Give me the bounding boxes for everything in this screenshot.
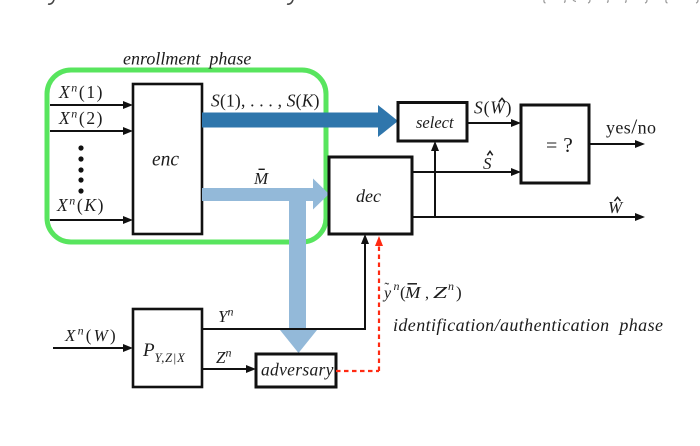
vertical ellipsis dots bbox=[78, 145, 83, 193]
svg-text:Xn(K): Xn(K) bbox=[56, 194, 105, 216]
svg-text:n: n bbox=[394, 279, 400, 293]
wire: X^n(2) arrow into enc bbox=[50, 130, 124, 132]
P_{Y,Z|X} channel box bbox=[133, 309, 202, 387]
=? box bbox=[521, 105, 589, 183]
svg-text:S(W): S(W) bbox=[474, 98, 512, 118]
dec box bbox=[329, 157, 412, 234]
svg-text:Z: Z bbox=[433, 283, 448, 302]
wire: Y^n from P up into dec bbox=[202, 243, 365, 329]
svg-text:,: , bbox=[425, 285, 429, 302]
svg-text:adversary: adversary bbox=[261, 360, 334, 380]
wire: X^n(K) arrow into enc bbox=[50, 219, 124, 221]
svg-text:W: W bbox=[608, 198, 624, 217]
svg-text:M: M bbox=[404, 283, 421, 302]
svg-text:Xn(W): Xn(W) bbox=[64, 324, 118, 346]
select box bbox=[398, 103, 467, 142]
svg-text:enc: enc bbox=[152, 150, 179, 171]
wire: X^n(W) into P bbox=[53, 347, 124, 349]
svg-text:Xn(2): Xn(2) bbox=[58, 107, 104, 129]
encoder box enc bbox=[133, 84, 202, 234]
svg-text:dec: dec bbox=[356, 186, 381, 206]
svg-text:identification/authentication: identification/authentication phase bbox=[393, 315, 663, 335]
red dashed wire: adversary to dec bbox=[336, 243, 379, 371]
wire: branch up into select bbox=[434, 150, 436, 217]
thick dark blue arrow: helper data to select bbox=[202, 105, 398, 137]
svg-text:S: S bbox=[483, 154, 492, 173]
wire: X^n(1) arrow into enc bbox=[50, 104, 124, 106]
svg-text:yes/no: yes/no bbox=[606, 115, 656, 139]
svg-text:n: n bbox=[448, 279, 454, 293]
cropped text line remnants at top bbox=[48, 0, 293, 4]
wire: Z^n into adversary bbox=[202, 368, 247, 370]
svg-text:= ?: = ? bbox=[546, 133, 573, 157]
svg-text:M: M bbox=[253, 169, 269, 188]
wire: =? output bbox=[589, 143, 636, 145]
wire: dec to =? (S-hat) bbox=[412, 171, 512, 173]
green enrollment-phase rounded frame bbox=[47, 70, 326, 242]
svg-text:): ) bbox=[456, 283, 462, 302]
thick light blue arrow: M-bar to dec and down to adversary bbox=[202, 179, 329, 354]
svg-text:select: select bbox=[416, 113, 454, 132]
svg-text:Xn(1): Xn(1) bbox=[58, 81, 104, 103]
svg-text:enrollment phase: enrollment phase bbox=[123, 49, 251, 69]
wire: dec W-hat output bbox=[412, 216, 636, 218]
adversary box bbox=[256, 354, 336, 387]
svg-text:S(1), . . . , S(K): S(1), . . . , S(K) bbox=[211, 91, 320, 111]
svg-text:˜: ˜ bbox=[385, 281, 390, 296]
wire: select to =? bbox=[467, 122, 512, 124]
